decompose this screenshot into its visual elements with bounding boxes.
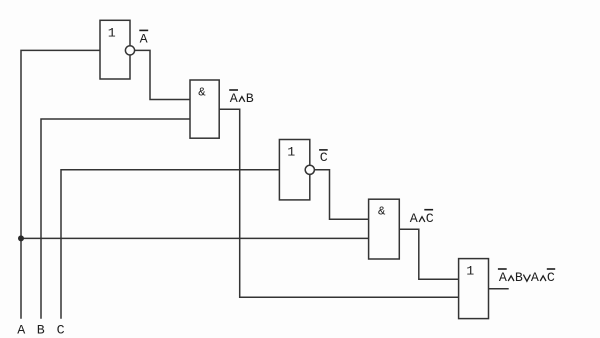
svg-text:A: A: [531, 270, 539, 285]
svg-text:A: A: [410, 211, 418, 226]
gate OR (IEC "1"): [459, 259, 489, 319]
label OR output: A-bar AND B OR A AND C-bar: [498, 269, 555, 285]
wire NOT2 output to AND2 input 1: [314, 170, 368, 220]
svg-text:A: A: [499, 270, 507, 285]
label NOT2 output: C-bar: [319, 150, 328, 165]
wire AND1 output to OR input 2: [219, 109, 458, 297]
gate AND1 (IEC "&"): [190, 80, 219, 138]
wire input C vertical: [61, 170, 279, 319]
gate NOT1 (inverter, IEC "1"): [100, 20, 135, 79]
svg-text:B: B: [246, 91, 254, 106]
svg-text:A: A: [140, 32, 148, 47]
svg-text:C: C: [426, 211, 434, 226]
svg-text:1: 1: [287, 144, 295, 159]
svg-text:B: B: [37, 323, 45, 338]
node A junction dot: [18, 235, 24, 241]
wire input B vertical: [41, 119, 190, 319]
gate NOT2 (inverter, IEC "1"): [279, 140, 314, 200]
svg-text:C: C: [57, 323, 65, 338]
svg-text:&: &: [378, 205, 386, 219]
svg-text:B: B: [515, 270, 523, 285]
gate AND2 (IEC "&"): [369, 199, 400, 259]
label NOT1 output: A-bar: [139, 30, 148, 46]
label AND1 output: A-bar AND B: [229, 90, 254, 106]
svg-text:C: C: [547, 270, 555, 285]
wire A junction to AND2 input 2: [21, 237, 369, 239]
wire input A vertical: [21, 50, 100, 318]
svg-text:A: A: [230, 91, 238, 106]
svg-text:1: 1: [466, 263, 474, 278]
svg-text:1: 1: [108, 25, 116, 40]
svg-text:C: C: [320, 150, 328, 165]
svg-text:A: A: [17, 323, 25, 338]
wire NOT1 output to AND1 input 1: [135, 50, 190, 99]
label AND2 output: A AND C-bar: [410, 210, 434, 226]
wire OR gate output stub: [489, 288, 509, 290]
svg-text:&: &: [198, 86, 206, 100]
wire AND2 output to OR input 1: [399, 229, 458, 279]
